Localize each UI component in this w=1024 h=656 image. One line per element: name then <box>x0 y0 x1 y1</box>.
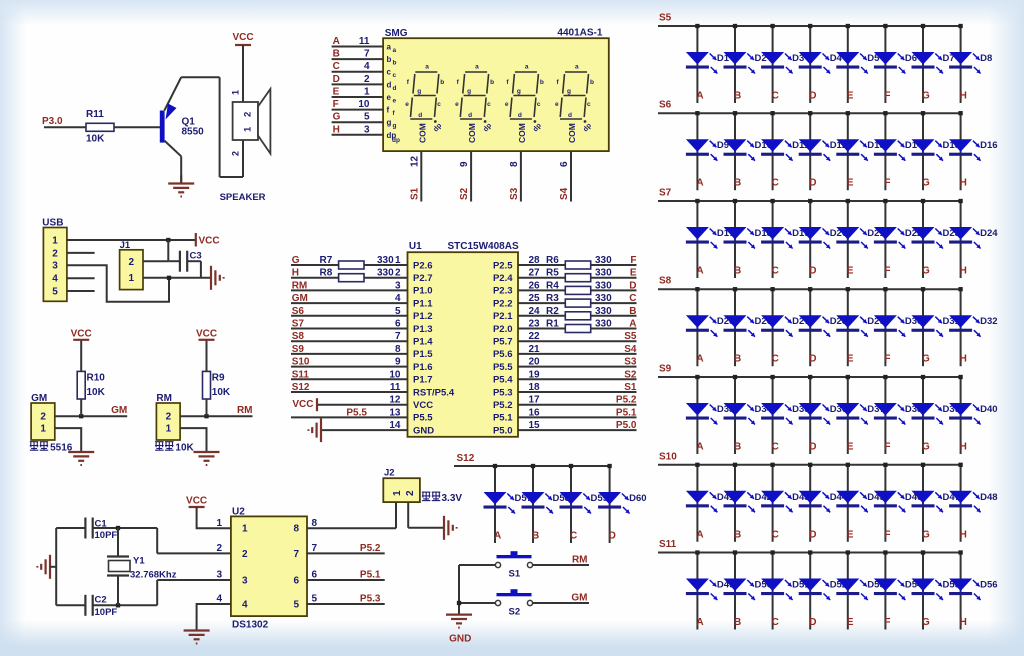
svg-text:COM: COM <box>417 123 427 143</box>
svg-text:C: C <box>570 531 577 542</box>
svg-text:c: c <box>487 101 491 108</box>
svg-text:330: 330 <box>595 268 612 279</box>
svg-text:8: 8 <box>312 518 318 529</box>
svg-text:P5.2: P5.2 <box>616 395 637 406</box>
svg-text:D56: D56 <box>980 580 997 591</box>
svg-text:7: 7 <box>312 543 318 554</box>
svg-text:B: B <box>734 266 741 277</box>
svg-text:10PF: 10PF <box>95 530 118 541</box>
svg-text:D24: D24 <box>980 228 998 239</box>
svg-text:R1: R1 <box>546 319 559 330</box>
svg-text:R2: R2 <box>546 306 559 317</box>
svg-text:R4: R4 <box>546 280 559 291</box>
svg-text:3: 3 <box>242 575 248 586</box>
svg-text:S1: S1 <box>409 187 420 200</box>
svg-text:S10: S10 <box>659 451 677 462</box>
svg-text:VCC: VCC <box>232 32 253 43</box>
svg-text:G: G <box>922 178 930 189</box>
svg-text:10K: 10K <box>87 387 106 398</box>
svg-text:g: g <box>393 123 397 130</box>
svg-text:330: 330 <box>595 280 612 291</box>
svg-text:E: E <box>847 442 854 453</box>
svg-text:c: c <box>387 68 392 77</box>
svg-text:3: 3 <box>364 124 370 135</box>
svg-text:D: D <box>809 266 816 277</box>
svg-text:P1.3: P1.3 <box>413 324 433 335</box>
svg-text:8550: 8550 <box>182 127 205 138</box>
svg-text:P1.2: P1.2 <box>413 311 433 322</box>
svg-text:a: a <box>575 64 579 71</box>
svg-text:S2: S2 <box>459 187 470 200</box>
svg-text:a: a <box>525 64 529 71</box>
svg-text:11: 11 <box>359 36 370 47</box>
svg-text:P5.5: P5.5 <box>346 407 367 418</box>
svg-text:4: 4 <box>242 599 248 610</box>
svg-text:2: 2 <box>52 248 58 259</box>
svg-text:S7: S7 <box>292 319 305 330</box>
svg-text:P5.0: P5.0 <box>616 420 637 431</box>
svg-text:a: a <box>425 64 429 71</box>
svg-text:g: g <box>387 118 392 127</box>
svg-text:P2.0: P2.0 <box>493 324 513 335</box>
svg-text:d: d <box>518 112 522 119</box>
svg-text:c: c <box>393 72 397 79</box>
svg-text:2: 2 <box>166 412 172 423</box>
svg-text:E: E <box>847 266 854 277</box>
svg-text:C: C <box>772 529 779 540</box>
svg-text:b: b <box>387 55 392 64</box>
svg-text:B: B <box>333 49 340 60</box>
svg-text:P1.7: P1.7 <box>413 375 433 386</box>
svg-text:RST/P5.4: RST/P5.4 <box>413 387 455 398</box>
svg-text:2: 2 <box>40 412 46 423</box>
svg-text:B: B <box>532 531 539 542</box>
svg-text:R5: R5 <box>546 268 559 279</box>
svg-text:A: A <box>696 354 703 365</box>
svg-text:S6: S6 <box>292 306 305 317</box>
svg-text:S11: S11 <box>292 369 310 380</box>
svg-text:2: 2 <box>243 112 254 117</box>
svg-text:C: C <box>772 266 779 277</box>
svg-text:P5.3: P5.3 <box>360 594 381 605</box>
svg-text:RM: RM <box>572 555 588 566</box>
svg-text:F: F <box>884 354 890 365</box>
svg-text:2: 2 <box>231 151 241 156</box>
svg-text:2: 2 <box>129 257 135 268</box>
svg-text:GND: GND <box>449 634 471 645</box>
svg-text:P5.3: P5.3 <box>493 387 513 398</box>
svg-text:F: F <box>884 178 890 189</box>
svg-text:1: 1 <box>40 424 46 435</box>
svg-text:D32: D32 <box>980 316 997 327</box>
svg-text:5: 5 <box>52 286 58 297</box>
svg-text:F: F <box>884 266 890 277</box>
svg-text:P2.3: P2.3 <box>493 286 513 297</box>
svg-text:5: 5 <box>312 594 318 605</box>
svg-text:5516: 5516 <box>50 443 73 454</box>
svg-text:C: C <box>772 442 779 453</box>
svg-text:6: 6 <box>312 570 318 581</box>
svg-text:H: H <box>960 529 967 540</box>
svg-text:D8: D8 <box>980 53 992 64</box>
svg-text:VCC: VCC <box>199 236 220 247</box>
svg-text:P5.5: P5.5 <box>493 362 513 373</box>
svg-text:32.768Khz: 32.768Khz <box>130 570 177 581</box>
svg-text:C1: C1 <box>95 519 108 530</box>
svg-text:d: d <box>568 112 572 119</box>
svg-text:P2.6: P2.6 <box>413 260 433 271</box>
svg-text:U1: U1 <box>409 241 422 252</box>
svg-text:1: 1 <box>52 235 58 246</box>
svg-text:10K: 10K <box>212 387 231 398</box>
svg-text:F: F <box>884 617 890 628</box>
svg-text:G: G <box>922 529 930 540</box>
svg-text:B: B <box>734 354 741 365</box>
svg-text:H: H <box>333 124 340 135</box>
svg-text:d: d <box>387 80 392 89</box>
svg-text:P1.1: P1.1 <box>413 298 433 309</box>
svg-text:b: b <box>440 79 444 86</box>
svg-text:RM: RM <box>292 280 308 291</box>
svg-text:10: 10 <box>358 99 370 110</box>
svg-text:D48: D48 <box>980 492 997 503</box>
svg-text:C: C <box>772 91 779 102</box>
svg-text:e: e <box>393 98 397 105</box>
svg-text:S6: S6 <box>659 100 672 111</box>
svg-text:4: 4 <box>52 274 58 285</box>
svg-text:S9: S9 <box>292 344 305 355</box>
svg-text:P1.4: P1.4 <box>413 337 433 348</box>
svg-text:S5: S5 <box>624 331 637 342</box>
svg-text:P2.5: P2.5 <box>493 260 513 271</box>
svg-text:G: G <box>292 255 300 266</box>
svg-text:330: 330 <box>377 268 394 279</box>
svg-text:E: E <box>333 87 340 98</box>
svg-text:D: D <box>809 91 816 102</box>
svg-text:c: c <box>437 101 441 108</box>
svg-text:J2: J2 <box>384 468 395 479</box>
svg-text:P1.5: P1.5 <box>413 349 433 360</box>
svg-text:G: G <box>922 266 930 277</box>
svg-text:S2: S2 <box>624 369 637 380</box>
svg-text:VCC: VCC <box>71 328 92 339</box>
svg-text:1: 1 <box>243 126 254 132</box>
svg-text:e: e <box>505 101 509 108</box>
svg-text:D: D <box>809 442 816 453</box>
svg-text:2: 2 <box>364 74 370 85</box>
svg-text:b: b <box>393 60 397 67</box>
svg-text:1: 1 <box>166 424 172 435</box>
svg-text:H: H <box>960 266 967 277</box>
svg-text:S11: S11 <box>659 539 677 550</box>
svg-text:E: E <box>847 91 854 102</box>
svg-text:S12: S12 <box>457 453 475 464</box>
svg-text:H: H <box>960 442 967 453</box>
svg-text:3: 3 <box>52 261 58 272</box>
svg-text:B: B <box>734 529 741 540</box>
svg-text:1: 1 <box>364 87 370 98</box>
svg-text:A: A <box>494 531 501 542</box>
svg-text:B: B <box>734 178 741 189</box>
svg-text:C: C <box>772 178 779 189</box>
svg-text:6: 6 <box>559 161 570 167</box>
svg-text:S1: S1 <box>509 569 521 580</box>
svg-text:dp: dp <box>392 137 400 144</box>
svg-text:COM: COM <box>567 123 577 143</box>
svg-text:H: H <box>960 354 967 365</box>
svg-text:P5.1: P5.1 <box>616 407 637 418</box>
svg-text:d: d <box>393 85 397 92</box>
svg-text:g: g <box>467 88 471 95</box>
svg-text:C3: C3 <box>190 251 202 262</box>
svg-text:H: H <box>292 268 299 279</box>
svg-text:S12: S12 <box>292 382 310 393</box>
svg-text:VCC: VCC <box>196 328 217 339</box>
svg-text:5: 5 <box>364 112 370 123</box>
svg-text:330: 330 <box>377 255 394 266</box>
svg-text:G: G <box>922 354 930 365</box>
svg-text:S4: S4 <box>559 187 570 200</box>
svg-text:R7: R7 <box>320 255 333 266</box>
svg-text:R10: R10 <box>87 373 106 384</box>
svg-text:E: E <box>847 354 854 365</box>
svg-text:P5.5: P5.5 <box>413 413 433 424</box>
svg-text:VCC: VCC <box>292 399 313 410</box>
svg-text:E: E <box>847 178 854 189</box>
svg-text:C2: C2 <box>95 595 107 606</box>
svg-text:D: D <box>629 280 636 291</box>
svg-text:1: 1 <box>392 490 403 496</box>
svg-text:330: 330 <box>595 306 612 317</box>
svg-text:12: 12 <box>409 155 420 167</box>
svg-text:C: C <box>772 354 779 365</box>
svg-text:330: 330 <box>595 255 612 266</box>
svg-text:c: c <box>537 101 541 108</box>
svg-text:D: D <box>809 617 816 628</box>
svg-text:GM: GM <box>111 405 127 416</box>
svg-text:a: a <box>387 43 392 52</box>
svg-text:G: G <box>922 91 930 102</box>
svg-text:RM: RM <box>237 405 253 416</box>
svg-text:G: G <box>333 112 341 123</box>
svg-text:a: a <box>475 64 479 71</box>
svg-text:4401AS-1: 4401AS-1 <box>557 28 602 39</box>
svg-text:S4: S4 <box>624 344 637 355</box>
svg-text:H: H <box>960 178 967 189</box>
svg-text:A: A <box>696 178 703 189</box>
svg-text:10K: 10K <box>175 443 194 454</box>
svg-text:5: 5 <box>293 599 299 610</box>
svg-text:4: 4 <box>364 61 370 72</box>
svg-text:D: D <box>609 531 616 542</box>
svg-text:VCC: VCC <box>413 400 433 411</box>
svg-text:G: G <box>922 442 930 453</box>
svg-text:B: B <box>734 617 741 628</box>
svg-text:B: B <box>734 442 741 453</box>
svg-text:b: b <box>490 79 494 86</box>
svg-text:e: e <box>455 101 459 108</box>
svg-text:C: C <box>772 617 779 628</box>
svg-text:G: G <box>922 617 930 628</box>
svg-text:D60: D60 <box>629 493 646 504</box>
svg-text:S8: S8 <box>659 276 672 287</box>
svg-text:SPEAKER: SPEAKER <box>220 192 266 203</box>
svg-text:S2: S2 <box>509 607 521 618</box>
svg-text:S1: S1 <box>624 382 637 393</box>
svg-text:9: 9 <box>459 161 470 167</box>
svg-text:A: A <box>696 266 703 277</box>
svg-text:GM: GM <box>292 293 308 304</box>
svg-text:H: H <box>960 91 967 102</box>
svg-text:8: 8 <box>509 161 520 167</box>
svg-text:330: 330 <box>595 319 612 330</box>
svg-text:S3: S3 <box>624 357 637 368</box>
svg-text:D: D <box>809 354 816 365</box>
svg-text:6: 6 <box>293 575 299 586</box>
svg-text:330: 330 <box>595 293 612 304</box>
svg-text:D16: D16 <box>980 140 997 151</box>
svg-text:A: A <box>696 442 703 453</box>
svg-text:S8: S8 <box>292 331 305 342</box>
svg-text:A: A <box>333 36 340 47</box>
svg-text:a: a <box>393 47 397 54</box>
svg-text:E: E <box>847 529 854 540</box>
svg-text:F: F <box>884 529 890 540</box>
svg-text:VCC: VCC <box>186 496 207 507</box>
svg-text:DS1302: DS1302 <box>232 620 269 631</box>
svg-text:STC15W408AS: STC15W408AS <box>448 241 519 252</box>
svg-text:R9: R9 <box>212 373 225 384</box>
svg-text:P1.6: P1.6 <box>413 362 433 373</box>
svg-text:g: g <box>517 88 521 95</box>
svg-text:1: 1 <box>129 273 135 284</box>
svg-text:P3.0: P3.0 <box>42 116 63 127</box>
svg-text:D: D <box>333 74 340 85</box>
svg-text:GM: GM <box>571 593 587 604</box>
svg-text:b: b <box>590 79 594 86</box>
svg-text:B: B <box>734 91 741 102</box>
svg-text:A: A <box>629 319 636 330</box>
svg-text:P5.7: P5.7 <box>493 337 513 348</box>
svg-text:P5.6: P5.6 <box>493 349 513 360</box>
svg-text:3: 3 <box>216 570 222 581</box>
svg-text:P5.1: P5.1 <box>493 413 513 424</box>
svg-text:S3: S3 <box>509 187 520 200</box>
svg-text:A: A <box>696 91 703 102</box>
svg-text:1: 1 <box>231 90 241 95</box>
svg-text:P5.0: P5.0 <box>493 425 513 436</box>
svg-text:P2.2: P2.2 <box>493 298 513 309</box>
svg-text:4: 4 <box>216 594 222 605</box>
svg-text:2: 2 <box>405 490 416 496</box>
svg-text:Y1: Y1 <box>133 556 145 567</box>
svg-text:C: C <box>629 293 636 304</box>
svg-text:S9: S9 <box>659 364 672 375</box>
svg-text:R3: R3 <box>546 293 559 304</box>
svg-text:A: A <box>696 617 703 628</box>
svg-text:COM: COM <box>467 123 477 143</box>
svg-text:P5.2: P5.2 <box>493 400 513 411</box>
svg-text:A: A <box>696 529 703 540</box>
svg-text:P2.4: P2.4 <box>493 273 513 284</box>
svg-text:H: H <box>960 617 967 628</box>
svg-text:P1.0: P1.0 <box>413 286 433 297</box>
svg-text:2: 2 <box>242 549 248 560</box>
svg-text:F: F <box>333 99 339 110</box>
svg-text:e: e <box>387 93 392 102</box>
svg-text:B: B <box>629 306 636 317</box>
svg-text:P5.1: P5.1 <box>360 570 381 581</box>
svg-text:f: f <box>387 106 390 115</box>
svg-text:10K: 10K <box>86 134 105 145</box>
svg-text:P2.7: P2.7 <box>413 273 433 284</box>
svg-text:P5.2: P5.2 <box>360 543 381 554</box>
svg-text:2: 2 <box>216 543 222 554</box>
svg-text:GND: GND <box>413 425 434 436</box>
svg-text:F: F <box>630 255 636 266</box>
svg-text:g: g <box>417 88 421 95</box>
svg-text:1: 1 <box>216 518 222 529</box>
svg-text:1: 1 <box>242 524 248 535</box>
svg-text:3.3V: 3.3V <box>442 493 463 504</box>
svg-text:C: C <box>333 61 340 72</box>
svg-text:R8: R8 <box>320 268 333 279</box>
svg-text:d: d <box>418 112 422 119</box>
svg-text:F: F <box>884 91 890 102</box>
svg-text:R6: R6 <box>546 255 559 266</box>
svg-text:F: F <box>884 442 890 453</box>
svg-text:S7: S7 <box>659 188 672 199</box>
svg-text:d: d <box>468 112 472 119</box>
svg-text:COM: COM <box>517 123 527 143</box>
svg-text:S5: S5 <box>659 13 672 24</box>
svg-text:D40: D40 <box>980 404 997 415</box>
svg-text:b: b <box>540 79 544 86</box>
svg-text:e: e <box>555 101 559 108</box>
svg-text:P2.1: P2.1 <box>493 311 513 322</box>
svg-text:g: g <box>567 88 571 95</box>
svg-text:c: c <box>587 101 591 108</box>
svg-text:R11: R11 <box>86 109 104 120</box>
svg-text:E: E <box>630 268 637 279</box>
svg-text:10PF: 10PF <box>95 607 118 618</box>
svg-text:D: D <box>809 529 816 540</box>
svg-text:7: 7 <box>293 549 299 560</box>
svg-text:S10: S10 <box>292 357 310 368</box>
svg-text:7: 7 <box>364 49 370 60</box>
svg-text:e: e <box>405 101 409 108</box>
svg-text:D: D <box>809 178 816 189</box>
svg-text:E: E <box>847 617 854 628</box>
svg-text:8: 8 <box>293 524 299 535</box>
svg-text:P5.4: P5.4 <box>493 375 513 386</box>
